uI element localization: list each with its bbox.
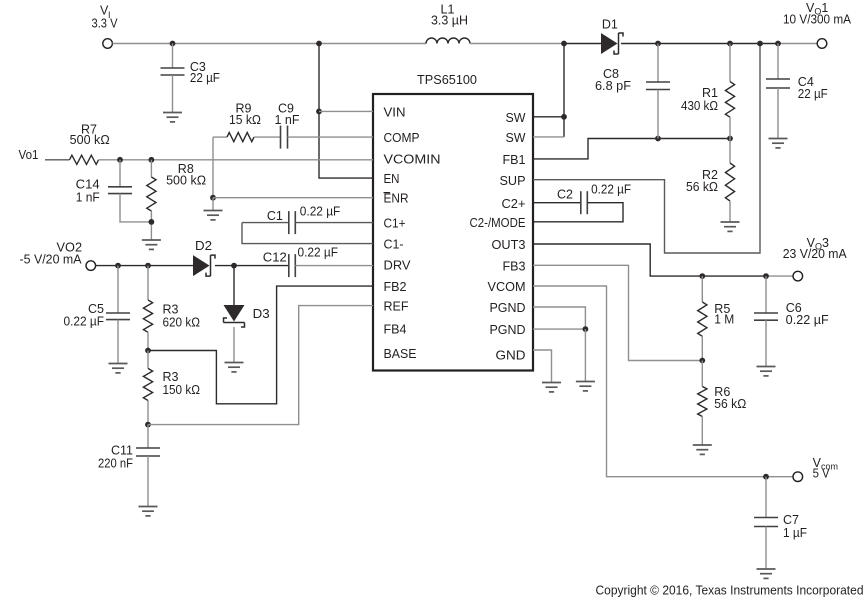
node junction C4 top xyxy=(775,41,781,47)
wire R9 to C9 xyxy=(254,136,281,138)
svg-text:EN: EN xyxy=(384,171,400,186)
svg-text:620 kΩ: 620 kΩ xyxy=(163,316,201,330)
ground under D3 xyxy=(225,363,244,372)
wire C1 to C1+ pin xyxy=(295,222,373,224)
wire PGND to ground xyxy=(584,329,586,381)
wire Vcom to C7 xyxy=(765,477,767,518)
svg-text:D2: D2 xyxy=(195,239,212,253)
resistor R2 xyxy=(725,163,734,201)
svg-text:FB4: FB4 xyxy=(384,322,407,337)
node junction C11 REF xyxy=(145,422,151,428)
resistor R1 xyxy=(725,82,734,118)
wire rail to EN pin xyxy=(319,44,373,179)
wire C2+ pin to C2 xyxy=(533,202,581,204)
svg-text:5 V: 5 V xyxy=(813,467,831,481)
terminal VO3 output xyxy=(793,271,803,281)
svg-text:FB3: FB3 xyxy=(503,258,526,273)
node junction VIN branch xyxy=(316,41,322,47)
wire to R8 xyxy=(150,160,152,177)
wire VO2 to D2 anode xyxy=(96,265,193,267)
wire FB1 to divider xyxy=(533,139,730,159)
svg-text:R3: R3 xyxy=(163,303,179,317)
wire divider to R3b xyxy=(147,351,149,369)
svg-text:VIN: VIN xyxy=(384,104,406,119)
node junction C3 / VI rail xyxy=(170,41,176,47)
terminal VI input xyxy=(103,39,113,49)
wire to C8 xyxy=(657,44,659,83)
svg-text:1 µF: 1 µF xyxy=(783,526,807,540)
node junction SW1 xyxy=(561,114,567,120)
capacitor C3 xyxy=(161,68,185,75)
wire SUP to VO1 rail xyxy=(533,44,760,254)
node junction R5 R6 xyxy=(699,358,705,364)
svg-text:R3: R3 xyxy=(163,370,179,384)
wire D2 to C12 xyxy=(215,265,289,267)
wire C12 to DRV pin xyxy=(295,265,373,267)
node junction C8 top xyxy=(655,41,661,47)
svg-text:10 V/300 mA: 10 V/300 mA xyxy=(783,13,852,27)
wire C1 to C1- pin xyxy=(242,223,373,244)
resistor R8 xyxy=(147,177,156,211)
node junction C14 top xyxy=(117,157,123,163)
node junction C6 top xyxy=(763,273,769,279)
ground under R2 xyxy=(721,222,740,231)
svg-text:3.3 µH: 3.3 µH xyxy=(431,14,468,28)
svg-text:150 kΩ: 150 kΩ xyxy=(163,383,201,397)
capacitor C4 xyxy=(766,79,790,88)
svg-text:22 µF: 22 µF xyxy=(190,71,220,85)
wire R2 to ground xyxy=(729,201,731,222)
resistor R6 xyxy=(698,386,707,416)
svg-text:PGND: PGND xyxy=(490,300,526,315)
svg-text:VCOM: VCOM xyxy=(488,279,526,294)
diode D2 xyxy=(193,255,215,276)
wire L1 to SW node xyxy=(470,43,564,45)
wire R7 to VCOMIN pin xyxy=(99,159,373,161)
svg-text:PGND: PGND xyxy=(490,322,526,337)
svg-text:1 M: 1 M xyxy=(714,313,734,327)
terminal Vcom output xyxy=(793,472,803,482)
wire C7 to ground xyxy=(765,527,767,569)
ground under GND pin xyxy=(542,383,561,392)
svg-text:C2+: C2+ xyxy=(502,196,526,211)
capacitor C5 xyxy=(106,313,130,320)
wire FB1 node to R2 xyxy=(729,139,731,164)
svg-text:15 kΩ: 15 kΩ xyxy=(229,113,261,127)
wire C9 to COMP pin xyxy=(288,136,374,138)
node junction VIN pin branch xyxy=(316,109,322,115)
svg-text:VCOMIN: VCOMIN xyxy=(384,152,441,167)
wire C11 to ground xyxy=(147,456,149,506)
svg-text:D1: D1 xyxy=(602,18,618,32)
wire to C3 xyxy=(172,44,174,69)
wire SW node to D1 anode xyxy=(564,43,601,45)
wire R5 to node xyxy=(701,336,703,360)
ground under R8 xyxy=(142,240,161,249)
svg-text:C14: C14 xyxy=(76,178,100,192)
node junction SW branch xyxy=(561,41,567,47)
svg-text:0.22 µF: 0.22 µF xyxy=(786,313,829,327)
resistor R5 xyxy=(698,302,707,336)
svg-text:R1: R1 xyxy=(702,86,718,100)
wire ENR pin xyxy=(213,197,373,199)
wire VCOM pin to Vcom terminal xyxy=(533,286,793,477)
wire SW pin 2 xyxy=(533,136,564,138)
svg-text:220 nF: 220 nF xyxy=(98,457,133,471)
wire R9 left xyxy=(213,136,227,138)
wire R9 down to ENR net xyxy=(212,137,214,198)
svg-text:SUP: SUP xyxy=(500,173,526,188)
wire C11 node to REF pin xyxy=(148,306,373,425)
wire to VO3 terminal xyxy=(766,275,793,277)
svg-text:Vo1: Vo1 xyxy=(19,148,39,162)
diode D3 xyxy=(224,305,245,327)
node junction C8 bottom xyxy=(655,136,661,142)
terminal VO2 output xyxy=(86,261,96,271)
svg-text:22 µF: 22 µF xyxy=(798,87,828,101)
wire Vo1 input xyxy=(45,159,70,161)
wire node to R6 xyxy=(701,361,703,387)
wire to D3 xyxy=(233,266,235,305)
capacitor C7 xyxy=(754,518,778,527)
wire R3a to divider node xyxy=(147,332,149,350)
capacitor C14 xyxy=(108,187,132,194)
svg-text:D3: D3 xyxy=(253,307,270,321)
diode D1 xyxy=(601,33,623,54)
capacitor C6 xyxy=(754,313,778,320)
IC U1 TPS65100 body xyxy=(373,94,533,371)
wire C3 to ground xyxy=(172,75,174,112)
wire VO3 to C6 xyxy=(765,276,767,313)
wire VO2 to C5 xyxy=(117,266,119,313)
wire to C4 xyxy=(777,44,779,80)
svg-text:6.8 pF: 6.8 pF xyxy=(595,79,631,93)
svg-text:C1+: C1+ xyxy=(384,216,406,231)
svg-text:SW: SW xyxy=(506,130,527,145)
svg-text:GND: GND xyxy=(496,348,526,363)
svg-text:C2-/MODE: C2-/MODE xyxy=(470,215,526,230)
capacitor C2 xyxy=(581,191,588,214)
svg-text:COMP: COMP xyxy=(384,130,420,145)
ground under C4 xyxy=(769,139,788,148)
node junction R1-R2 divider xyxy=(727,136,733,142)
ground under ENR net xyxy=(204,211,223,220)
node junction C7 xyxy=(763,474,769,480)
node junction R3 top xyxy=(145,263,151,269)
wire C8 to FB1 net xyxy=(657,90,659,139)
node junction R8 top xyxy=(149,157,155,163)
svg-text:C11: C11 xyxy=(111,444,133,458)
wire R3b to C11 node xyxy=(147,401,149,425)
node junction ENR ground xyxy=(210,195,216,201)
ground under C6 xyxy=(757,367,776,376)
wire rail to SW pins xyxy=(563,44,565,137)
svg-text:430 kΩ: 430 kΩ xyxy=(681,99,718,113)
wire C2 to C2- pin xyxy=(533,203,623,222)
svg-text:C1-: C1- xyxy=(384,237,404,252)
wire D1 cathode to C4 node xyxy=(621,43,778,45)
wire C4 node to VO1 terminal xyxy=(778,43,817,45)
svg-text:56 kΩ: 56 kΩ xyxy=(686,180,718,194)
svg-text:0.22 µF: 0.22 µF xyxy=(64,315,105,329)
wire C6 to ground xyxy=(765,320,767,366)
wire OUT3 to VO3 row xyxy=(533,244,766,276)
svg-text:-5 V/20 mA: -5 V/20 mA xyxy=(20,253,83,267)
wire C4 to ground xyxy=(777,88,779,138)
svg-text:FB1: FB1 xyxy=(503,152,526,167)
node junction R1 top xyxy=(727,41,733,47)
capacitor C12 xyxy=(289,254,296,277)
resistor R3 150k xyxy=(143,368,152,400)
wire to ground ENR xyxy=(212,198,214,210)
svg-text:0.22 µF: 0.22 µF xyxy=(300,205,341,219)
resistor R7 xyxy=(70,155,99,164)
node junction R8 C14 xyxy=(149,219,155,225)
node junction C5 xyxy=(115,263,121,269)
wire VO3 to R5 xyxy=(701,276,703,302)
svg-text:REF: REF xyxy=(384,299,409,314)
node junction PGND xyxy=(583,326,589,332)
wire D3 to ground xyxy=(233,327,235,362)
wire R8 to ground xyxy=(150,211,152,240)
svg-text:OUT3: OUT3 xyxy=(492,237,526,252)
capacitor C9 xyxy=(281,126,288,149)
capacitor C8 xyxy=(646,82,670,90)
svg-text:Copyright © 2016, Texas Instru: Copyright © 2016, Texas Instruments Inco… xyxy=(596,584,864,598)
ground under C11 xyxy=(139,507,158,516)
pin ENR overline xyxy=(384,192,391,194)
svg-text:SW: SW xyxy=(506,110,527,125)
wire rail to R1 xyxy=(729,44,731,82)
ground under PGND xyxy=(576,382,595,391)
svg-text:500 kΩ: 500 kΩ xyxy=(166,174,206,188)
wire PGND2 xyxy=(533,328,585,330)
node junction R5 top xyxy=(699,273,705,279)
wire divider to FB2 pin xyxy=(148,286,373,404)
wire to VIN pin xyxy=(319,110,373,112)
svg-text:1 nF: 1 nF xyxy=(275,113,300,127)
ground under C7 xyxy=(757,569,776,578)
svg-text:23 V/20 mA: 23 V/20 mA xyxy=(783,247,848,261)
wire FB3 to R5 R6 node xyxy=(533,265,702,360)
node junction SUP on rail xyxy=(757,41,763,47)
svg-text:0.22 µF: 0.22 µF xyxy=(298,246,339,260)
svg-text:FB2: FB2 xyxy=(384,279,407,294)
svg-text:C12: C12 xyxy=(263,251,287,265)
resistor R3 620k xyxy=(143,300,152,332)
ground under C3 xyxy=(163,113,182,122)
wire to C11 xyxy=(147,425,149,448)
wire C1 left xyxy=(242,222,289,224)
wire R6 to ground xyxy=(701,417,703,445)
wire C14 bottom to R8 bottom xyxy=(120,194,151,222)
wire to C14 xyxy=(119,160,121,187)
ground under R6 xyxy=(693,445,712,454)
svg-text:DRV: DRV xyxy=(384,258,411,273)
resistor R9 xyxy=(227,133,254,142)
svg-text:C1: C1 xyxy=(267,209,283,223)
wire GND pin to ground xyxy=(533,350,552,382)
wire PGND1 xyxy=(533,307,585,329)
inductor L1 xyxy=(426,38,470,44)
wire SW pin 1 xyxy=(533,116,564,118)
wire R1 to FB1 node xyxy=(729,117,731,138)
svg-text:C7: C7 xyxy=(783,513,799,527)
svg-text:0.22 µF: 0.22 µF xyxy=(591,183,631,197)
svg-text:56 kΩ: 56 kΩ xyxy=(714,397,746,411)
node junction R3 divider xyxy=(145,348,151,354)
svg-text:BASE: BASE xyxy=(384,346,417,361)
svg-text:500 kΩ: 500 kΩ xyxy=(70,133,110,147)
node junction D3 top xyxy=(231,263,237,269)
ground under C5 xyxy=(109,364,128,373)
capacitor C1 xyxy=(289,211,296,234)
wire VO2 to R3a xyxy=(147,266,149,300)
terminal VO1 output xyxy=(817,39,827,49)
capacitor C11 xyxy=(136,448,160,456)
svg-text:3.3 V: 3.3 V xyxy=(92,17,119,31)
svg-text:C2: C2 xyxy=(557,188,573,202)
svg-text:TPS65100: TPS65100 xyxy=(417,72,477,87)
wire C5 to ground xyxy=(117,320,119,363)
wire VI rail to L1 xyxy=(112,43,426,45)
svg-text:1 nF: 1 nF xyxy=(76,191,100,205)
